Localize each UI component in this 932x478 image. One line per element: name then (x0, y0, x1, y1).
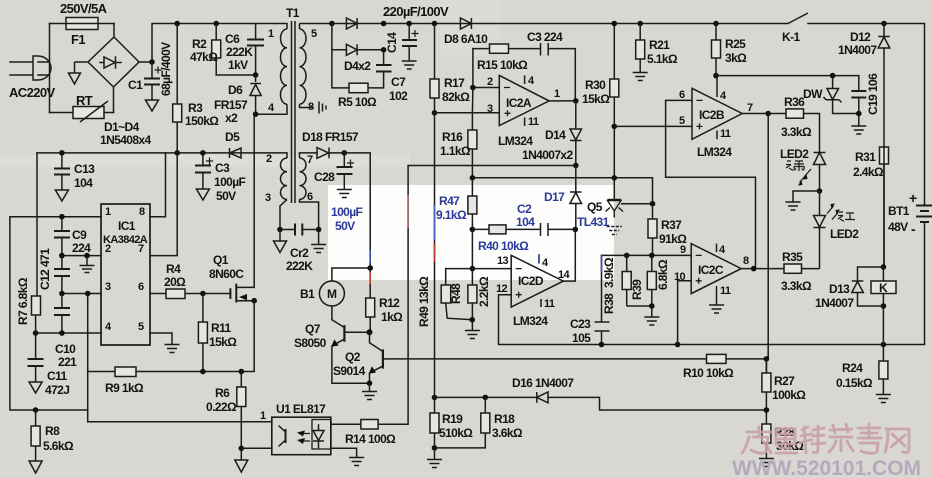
svg-text:2: 2 (487, 76, 493, 88)
svg-text:C2: C2 (517, 202, 532, 216)
wire IC2B pin6 feedback (666, 100, 756, 268)
ground stub LED junction (786, 191, 820, 210)
scan artifact blue R49 (434, 205, 436, 240)
scan white patch overlay (328, 185, 614, 280)
R49 column wire (434, 113, 436, 398)
diode D16 (537, 392, 548, 403)
wire pin3 branch down to R9 and EL817 (88, 294, 272, 422)
svg-text:3.6kΩ: 3.6kΩ (492, 426, 523, 440)
svg-text:Q5: Q5 (587, 200, 603, 214)
svg-text:R36: R36 (784, 95, 805, 109)
svg-text:14: 14 (558, 269, 571, 281)
svg-text:6: 6 (307, 191, 313, 203)
svg-text:5.1kΩ: 5.1kΩ (647, 52, 678, 66)
capacitor C19 (851, 76, 866, 114)
svg-text:11: 11 (528, 116, 539, 128)
svg-text:Q2: Q2 (345, 350, 361, 364)
svg-text:C23: C23 (570, 317, 591, 331)
capacitor C28 (337, 153, 355, 189)
node bridge output (149, 59, 155, 65)
svg-text:Q1: Q1 (213, 253, 229, 267)
svg-text:12: 12 (496, 283, 508, 295)
node pin2 (470, 85, 476, 91)
svg-text:DW: DW (803, 87, 823, 101)
svg-text:11: 11 (720, 128, 731, 140)
svg-text:R24: R24 (842, 361, 863, 375)
ground under Q2 emitter (362, 383, 377, 399)
resistor R6 (237, 372, 246, 461)
svg-text:6: 6 (679, 89, 685, 101)
resistor R4 (166, 289, 185, 299)
node pin2 ground stub (84, 253, 90, 259)
capacitor C11 (28, 333, 44, 382)
resistor R40 (489, 225, 506, 234)
node pin9 R38 (624, 253, 630, 259)
svg-text:D4x2: D4x2 (344, 59, 371, 73)
svg-text:1N4007x2: 1N4007x2 (522, 148, 574, 162)
svg-text:C3 224: C3 224 (527, 30, 563, 44)
svg-text:100µF: 100µF (331, 205, 363, 219)
ground under C14 (402, 61, 417, 69)
ground under TL431 (607, 227, 622, 235)
diode D4 upper (346, 18, 357, 29)
wire y344 bus (602, 344, 925, 346)
svg-text:3: 3 (265, 192, 271, 204)
wire T1 pin5 rail to switch (310, 23, 788, 25)
wire pin6 to Q1 gate (150, 293, 230, 295)
switch K-1 (788, 13, 884, 24)
svg-text:11: 11 (720, 285, 731, 297)
svg-text:R47: R47 (439, 194, 460, 208)
svg-text:3: 3 (487, 103, 493, 115)
resistor R31 (880, 147, 889, 267)
ground under T1 pin3 (274, 230, 287, 253)
svg-text:1N4007: 1N4007 (838, 43, 877, 57)
diode D4 lower branch (332, 24, 384, 50)
svg-text:IC2D: IC2D (518, 274, 544, 288)
capacitor C23 (595, 322, 610, 331)
ground under R8 (29, 461, 42, 473)
capacitor C2 (541, 223, 549, 236)
svg-text:1: 1 (105, 206, 111, 218)
relay K column (882, 147, 885, 345)
svg-text:50V: 50V (335, 219, 355, 233)
node R6 bottom EL817 (239, 446, 245, 452)
ground under R19 (427, 448, 442, 468)
svg-text:R2: R2 (192, 37, 207, 51)
resistor R16 (468, 113, 477, 178)
ground under R21 (633, 73, 648, 81)
scan artifact blue C23 column (601, 255, 603, 272)
ground under C13 (55, 190, 68, 201)
zener DW (824, 76, 859, 114)
diode D13 (852, 281, 864, 293)
node R11/R9 (200, 369, 206, 375)
node R19 bottom (432, 445, 438, 451)
label red (838, 212, 855, 222)
transformer T1 primary winding 1-4 (258, 24, 287, 115)
svg-text:D13: D13 (829, 282, 850, 296)
resistor R48 (441, 269, 472, 320)
svg-text:-: - (911, 221, 916, 237)
wire pin3 (62, 293, 101, 295)
svg-text:R8: R8 (45, 424, 60, 438)
svg-text:IC2B: IC2B (699, 108, 725, 122)
svg-text:1: 1 (554, 88, 560, 100)
node C19 bottom (856, 111, 862, 117)
node C14 (406, 21, 412, 27)
svg-text:LM324: LM324 (498, 134, 533, 148)
svg-text:150kΩ: 150kΩ (185, 114, 219, 128)
watermark chinese characters (vector strokes) (742, 424, 909, 453)
node bus R3 (174, 150, 180, 156)
resistor R24 (879, 345, 888, 395)
svg-text:9: 9 (680, 244, 686, 256)
svg-text:U1 EL817: U1 EL817 (276, 402, 326, 416)
wire pin7 riser (150, 153, 177, 256)
capacitor C1 (144, 62, 162, 100)
svg-text:15kΩ: 15kΩ (209, 335, 237, 349)
svg-text:15kΩ: 15kΩ (582, 92, 610, 106)
svg-text:R6: R6 (215, 386, 230, 400)
svg-text:11: 11 (544, 298, 555, 310)
svg-text:8: 8 (743, 255, 749, 267)
capacitor C14 (402, 24, 419, 61)
svg-text:100kΩ: 100kΩ (772, 388, 806, 402)
svg-text:LED2: LED2 (830, 227, 859, 241)
svg-text:R9 1kΩ: R9 1kΩ (105, 381, 144, 395)
resistor R12 (366, 268, 375, 332)
diode D14 (570, 101, 582, 166)
svg-text:R10 10kΩ: R10 10kΩ (683, 366, 734, 380)
resistor R36 (768, 109, 819, 152)
svg-text:D1~D4: D1~D4 (104, 120, 140, 134)
ground at IC1 pin2 (80, 256, 95, 273)
svg-text:82kΩ: 82kΩ (442, 90, 470, 104)
svg-text:3.9kΩ: 3.9kΩ (602, 257, 616, 288)
ground under bridge (69, 73, 81, 84)
node motor branch (367, 265, 373, 271)
ground under C28 (337, 190, 352, 198)
wire IC2C pin9 (602, 254, 692, 256)
svg-text:104: 104 (516, 215, 535, 229)
op-amp IC2B (692, 76, 742, 140)
svg-text:R18: R18 (494, 412, 515, 426)
svg-text:5: 5 (311, 28, 317, 40)
ground under R6 (235, 460, 248, 472)
node R6 top (239, 369, 245, 375)
svg-text:R49 13kΩ: R49 13kΩ (417, 276, 431, 327)
node pin2/C9 (59, 253, 65, 259)
wire node to motor (332, 268, 370, 281)
svg-text:R39: R39 (630, 279, 644, 300)
wire EL817 pin2 to R6 node (241, 447, 271, 449)
svg-text:LED2: LED2 (780, 147, 809, 161)
node D14 bottom (573, 163, 579, 169)
battery BT1 (916, 203, 932, 345)
wire pin2 (62, 255, 101, 257)
resistor R28 (762, 424, 771, 458)
svg-text:K: K (879, 281, 888, 295)
svg-text:R19: R19 (442, 412, 463, 426)
svg-text:R17: R17 (444, 76, 465, 90)
svg-text:1N5408x4: 1N5408x4 (100, 133, 152, 147)
resistor R10 (707, 354, 727, 363)
svg-text:1: 1 (268, 28, 274, 40)
svg-text:510kΩ: 510kΩ (439, 426, 473, 440)
node R17 bottom pin3 (432, 110, 438, 116)
resistor R5 (349, 83, 368, 93)
svg-text:100µF: 100µF (214, 175, 246, 189)
resistor R19 (430, 397, 439, 448)
node C2 out / D17 (573, 227, 579, 233)
resistor R15 (490, 44, 509, 53)
svg-text:Cr2: Cr2 (290, 246, 309, 260)
svg-text:47kΩ: 47kΩ (190, 50, 218, 64)
wire pin1 to left rail (10, 217, 101, 410)
svg-text:3: 3 (105, 281, 111, 293)
resistor R35 (784, 264, 820, 273)
svg-text:1.1kΩ: 1.1kΩ (440, 144, 471, 158)
wire Q1 source down to sense line (88, 301, 255, 372)
EL817 internal phototransistor (279, 426, 311, 447)
svg-text:S9014: S9014 (333, 364, 366, 378)
LED2 green (798, 153, 826, 192)
resistor R27 (762, 359, 771, 424)
svg-text:9.1kΩ: 9.1kΩ (436, 208, 467, 222)
svg-text:220µF/100V: 220µF/100V (383, 4, 449, 19)
svg-text:224: 224 (72, 241, 91, 255)
node D13 top (881, 264, 887, 270)
relay K coil (871, 281, 896, 294)
wire T1 pin7 to D18 (300, 152, 318, 154)
svg-text:x2: x2 (225, 111, 238, 125)
op-amp IC2C (691, 244, 741, 305)
node D4 right lower (381, 47, 387, 53)
svg-text:13: 13 (497, 255, 509, 267)
svg-text:1N4007: 1N4007 (815, 296, 854, 310)
scan artifact red motor column (369, 272, 371, 284)
node pin10 bottom (675, 342, 681, 348)
svg-text:R37: R37 (661, 218, 682, 232)
diode D18 (317, 148, 344, 159)
wire comparator ref y178 (472, 178, 652, 204)
wire pin5 to ground (150, 333, 172, 344)
scan artifact blue motor column (369, 250, 371, 263)
ground at IC2C pin11 (709, 305, 724, 313)
svg-text:3.3kΩ: 3.3kΩ (781, 279, 812, 293)
resistor R3 (173, 24, 182, 153)
diode D13 loop (858, 267, 884, 306)
svg-text:D17: D17 (544, 190, 565, 204)
node R16 bottom (470, 175, 476, 181)
wire IC2C pin10 riser (678, 281, 692, 345)
svg-text:LM324: LM324 (697, 145, 732, 159)
svg-text:102: 102 (389, 89, 408, 103)
svg-text:8N60C: 8N60C (209, 267, 244, 281)
svg-text:222K: 222K (226, 45, 253, 59)
svg-text:4: 4 (528, 75, 535, 87)
ground under C3 (196, 189, 209, 200)
wire pin4 to Q1 drain riser (254, 114, 255, 287)
svg-text:IC2A: IC2A (506, 96, 532, 110)
node C6/R2/D6 (253, 72, 259, 78)
capacitor C12 (54, 256, 70, 294)
svg-text:C6: C6 (225, 32, 240, 46)
svg-text:R3: R3 (188, 101, 203, 115)
resistor R8 (31, 410, 40, 461)
svg-text:5: 5 (138, 321, 144, 333)
node rail R3 (174, 21, 180, 27)
resistor R47 (468, 178, 477, 230)
svg-text:M: M (327, 287, 337, 301)
node R25 rail (713, 21, 719, 27)
node gate/R11 (200, 291, 206, 297)
transformer T1 secondary winding 7-6 (300, 153, 319, 229)
svg-text:1: 1 (260, 410, 266, 422)
node D18/C28 (342, 150, 348, 156)
svg-text:S8050: S8050 (294, 336, 327, 350)
svg-text:R40 10kΩ: R40 10kΩ (478, 239, 529, 253)
svg-text:K-1: K-1 (782, 30, 800, 44)
wire zener row (716, 75, 859, 77)
ground under C11 (29, 382, 42, 393)
node TL431 out R37 (650, 201, 656, 207)
svg-text:3.3kΩ: 3.3kΩ (781, 125, 812, 139)
svg-text:R25: R25 (725, 37, 746, 51)
svg-text:2.4kΩ: 2.4kΩ (853, 165, 884, 179)
capacitor C9 (54, 217, 70, 256)
ground at IC1 pin5 (165, 345, 180, 353)
wire IC2D pin12 (499, 295, 602, 345)
LED2 red (814, 191, 841, 269)
node R25 bottom pin4 (713, 73, 719, 79)
wire bridge output to rail corner (139, 24, 274, 63)
bridge rectifier D1~D4 (75, 24, 140, 113)
node rail R30 (612, 21, 618, 27)
svg-text:7: 7 (138, 243, 144, 255)
node Q1 source (251, 298, 257, 304)
node ref wire (612, 175, 618, 181)
node R8 tap (33, 407, 39, 413)
wire pin2 riser to R16 (471, 49, 474, 113)
wire bus corner down to R7 (36, 153, 38, 296)
node R39 bottom (649, 303, 655, 309)
svg-text:C11: C11 (47, 369, 67, 383)
capacitor C13 (54, 153, 70, 190)
svg-text:F1: F1 (71, 32, 85, 47)
svg-text:D18 FR157: D18 FR157 (302, 130, 359, 144)
ground at T1 pin8 (319, 102, 326, 114)
node R21 rail (637, 21, 643, 27)
resistor R14 (361, 420, 378, 430)
svg-text:2: 2 (105, 243, 111, 255)
svg-text:TL431: TL431 (577, 215, 610, 229)
node IC2B out (765, 111, 771, 117)
svg-text:D8 6A10: D8 6A10 (444, 32, 488, 46)
node rail R2 (213, 21, 219, 27)
svg-text:5.6kΩ: 5.6kΩ (43, 439, 74, 453)
op-amp IC2D (511, 255, 563, 307)
motor B1 (319, 281, 344, 306)
svg-text:R21: R21 (649, 38, 670, 52)
ground under R24 (876, 395, 891, 403)
wire EL817 out top to R14 (331, 166, 576, 425)
svg-text:R15 10kΩ: R15 10kΩ (477, 58, 528, 72)
node D4 branch (329, 21, 335, 27)
snubber loop wire R5/C7 (332, 50, 384, 88)
wire pin13 to IC2D (446, 268, 512, 270)
svg-text:D12: D12 (850, 30, 871, 44)
svg-text:D5: D5 (225, 130, 240, 144)
node D13 bottom (881, 303, 887, 309)
wire pin8 riser (150, 153, 166, 217)
resistor R7 (32, 296, 41, 333)
capacitor C6 (247, 24, 264, 76)
capacitor C10 (54, 294, 70, 334)
transistor Q7 (331, 325, 369, 383)
wire IC2B output (742, 113, 768, 115)
svg-text:R7 6.8kΩ: R7 6.8kΩ (16, 277, 30, 325)
fuse F1 (50, 18, 115, 30)
ground under C1 (146, 100, 159, 111)
svg-text:IC1: IC1 (118, 219, 136, 233)
svg-text:2: 2 (266, 153, 272, 165)
svg-text:2.2kΩ: 2.2kΩ (477, 276, 491, 307)
wire IC2A pin2 (473, 87, 499, 89)
svg-text:20Ω: 20Ω (164, 275, 186, 289)
main DC bus wire y153 (37, 152, 274, 154)
svg-text:R11: R11 (211, 321, 231, 335)
label green (786, 161, 804, 171)
node relay bottom (881, 342, 887, 348)
resistor R2 (212, 24, 256, 76)
svg-text:68µF/400V: 68µF/400V (159, 42, 173, 96)
svg-text:R16: R16 (442, 130, 463, 144)
transistor Q2 (369, 332, 390, 383)
wire IC2A output (549, 100, 576, 102)
resistor R21 (636, 24, 645, 73)
svg-text:221: 221 (58, 355, 77, 369)
node R48 bottom (469, 317, 475, 323)
svg-text:AC220V: AC220V (9, 85, 55, 100)
resistor R17 (430, 24, 439, 113)
svg-text:3kΩ: 3kΩ (725, 51, 747, 65)
node pin1/C9 (59, 214, 65, 220)
svg-text:R35: R35 (782, 250, 803, 264)
resistor R11 (198, 294, 207, 372)
node D12 rail (881, 21, 887, 27)
svg-text:R38: R38 (602, 293, 616, 314)
transistor Q1 mosfet (230, 284, 254, 303)
svg-text:R14 100Ω: R14 100Ω (345, 432, 396, 446)
resistor R39 (627, 255, 657, 306)
node Q7/Q2 emitter ground (367, 380, 373, 386)
node pin4/C10 (59, 330, 65, 336)
capacitor C7 (376, 50, 392, 72)
wire pin3 IC2A (435, 112, 500, 114)
resistor R9 (115, 367, 136, 377)
svg-text:WWW.520101.COM: WWW.520101.COM (732, 457, 921, 478)
wire R40/C2 feedback (472, 229, 575, 281)
node D4 right top (381, 21, 387, 27)
svg-text:4: 4 (720, 90, 727, 102)
capacitor C3 (195, 153, 213, 189)
svg-text:0.15kΩ: 0.15kΩ (836, 376, 873, 390)
svg-text:C19 106: C19 106 (866, 73, 880, 115)
wire IC2B out down rail (766, 114, 768, 374)
svg-text:222K: 222K (286, 259, 313, 273)
